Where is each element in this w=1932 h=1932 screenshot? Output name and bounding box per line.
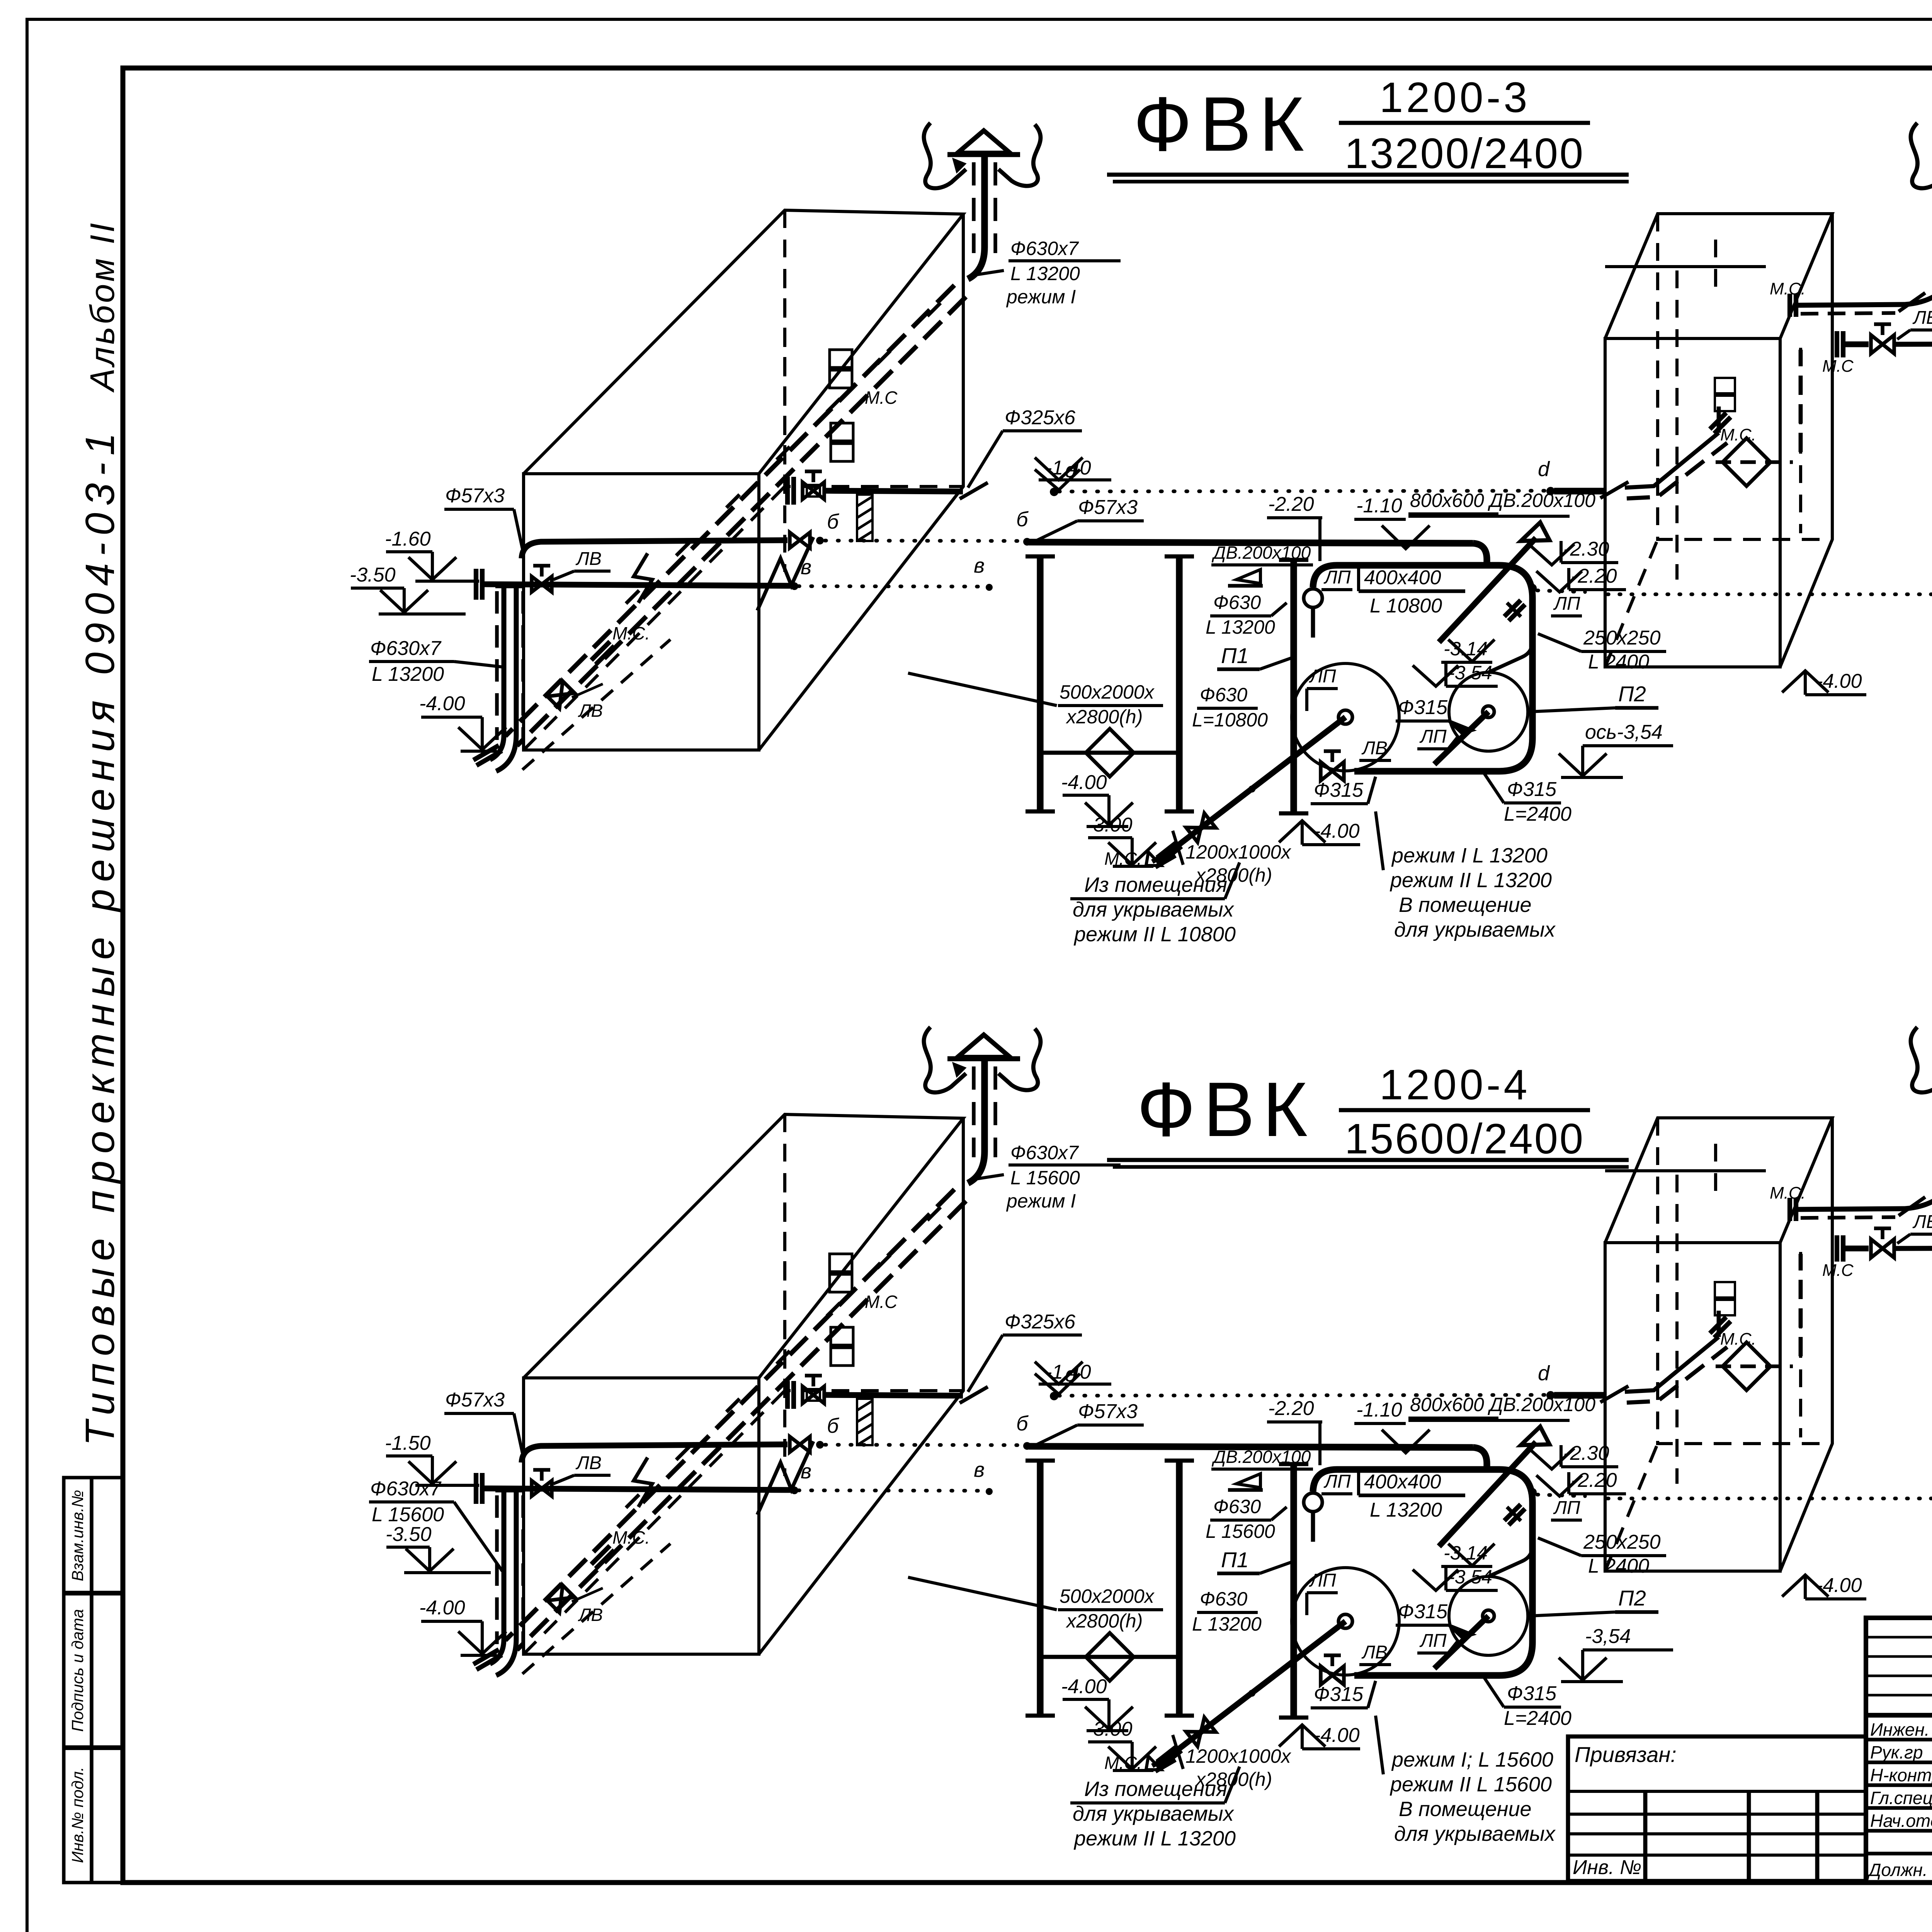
svg-text:-3.50: -3.50: [350, 564, 396, 586]
svg-text:L 13200: L 13200: [1192, 1613, 1262, 1635]
svg-text:для укрываемых: для укрываемых: [1073, 898, 1235, 921]
left shelter box front face: [524, 1378, 759, 1654]
right box top and side: [1605, 214, 1832, 338]
hatched wall sleeve: [857, 1399, 872, 1445]
thin LV dashed diagonal: [522, 1544, 670, 1674]
svg-text:Ф630: Ф630: [1200, 1588, 1247, 1610]
svg-text:режим I: режим I: [1006, 1190, 1076, 1212]
svg-text:1200х1000х: 1200х1000х: [1185, 1745, 1291, 1767]
upper scheme П1 П2 (ФВК 1200-3): [350, 123, 1932, 946]
dotted line -2.20 level: [1537, 590, 1585, 592]
svg-text:В помещение: В помещение: [1399, 1798, 1532, 1821]
elevation -1.60: [385, 528, 479, 581]
tick marks on п2: [1507, 603, 1521, 617]
svg-text:ЛП: ЛП: [1309, 666, 1336, 687]
svg-text:13200/2400: 13200/2400: [1345, 130, 1585, 177]
svg-text:ЛП: ЛП: [1419, 726, 1447, 747]
valve on bottom edge: [1321, 751, 1344, 781]
svg-text:1200х1000х: 1200х1000х: [1185, 841, 1291, 863]
svg-text:Ф630х7: Ф630х7: [1010, 238, 1079, 259]
П1 chamber wall: [1290, 560, 1297, 813]
filter diamond: [1086, 1633, 1134, 1681]
П2 outlet diagonal: [1434, 1616, 1488, 1668]
svg-text:-4.00: -4.00: [1061, 771, 1107, 794]
svg-text:М.С.: М.С.: [612, 1527, 650, 1548]
svg-text:М.С: М.С: [865, 388, 898, 408]
exhaust stack pipe: [981, 1058, 988, 1151]
svg-text:Ф630: Ф630: [1200, 684, 1247, 706]
svg-text:Ф325х6: Ф325х6: [1005, 406, 1075, 429]
svg-text:ЛВ: ЛВ: [575, 549, 602, 569]
svg-text:Ф630х7: Ф630х7: [370, 637, 442, 660]
wind flourish left: [924, 123, 966, 188]
grille rects right box: [1715, 1282, 1735, 1298]
Ф325х6 pipe from box with valve: [787, 1381, 794, 1409]
svg-text:L 10800: L 10800: [1370, 595, 1442, 617]
downpipe Ф630х7: [502, 586, 507, 735]
wall muffler grilles: [830, 350, 852, 367]
dash duct to upper flange: [1799, 350, 1803, 452]
svg-text:-2.20: -2.20: [1268, 1397, 1314, 1420]
stack umbrella cap: [957, 131, 1010, 153]
svg-text:-4.00: -4.00: [419, 692, 465, 715]
duct inside box to stack: [505, 1189, 954, 1640]
svg-text:Н-контр: Н-контр: [1870, 1765, 1932, 1785]
svg-text:для укрываемых: для укрываемых: [1073, 1802, 1235, 1825]
svg-text:М.С.: М.С.: [1104, 849, 1142, 869]
wind flourish right: [998, 1029, 1041, 1090]
pipe Ф57х3 run b: [522, 1444, 787, 1463]
right box inner top: [1605, 1169, 1766, 1172]
valve on pipe b: [790, 1437, 810, 1452]
MC tick on duct: [1710, 413, 1731, 434]
svg-text:Из помещения: Из помещения: [1084, 1777, 1227, 1801]
svg-text:Ф325х6: Ф325х6: [1005, 1311, 1075, 1333]
d reference dotted line: [1059, 491, 1546, 492]
diamond filter right box: [1723, 1342, 1770, 1390]
svg-text:-3.00: -3.00: [1087, 814, 1133, 836]
fan П1 scroll: [1292, 1568, 1399, 1675]
svg-text:режим II L 10800: режим II L 10800: [1073, 923, 1236, 946]
elevation -4.00 under filter: [1061, 1675, 1133, 1731]
right box top and side: [1605, 1118, 1832, 1243]
svg-text:Инв. №: Инв. №: [1573, 1856, 1641, 1879]
svg-text:Ф630: Ф630: [1213, 592, 1261, 613]
svg-text:ДВ.200х100: ДВ.200х100: [1211, 543, 1311, 563]
svg-text:L=10800: L=10800: [1192, 709, 1268, 731]
filter cell column walls: [1037, 556, 1043, 811]
svg-text:1200-4: 1200-4: [1379, 1061, 1531, 1109]
fan П2 scroll: [1449, 672, 1528, 751]
filter bottom connector: [1040, 751, 1179, 755]
right wind flourish left: [1911, 123, 1932, 188]
wall muffler grilles: [830, 1254, 852, 1272]
svg-text:Ф57х3: Ф57х3: [1078, 1400, 1138, 1423]
elevation -1.40 on d line: [1035, 457, 1111, 480]
svg-text:Типовые проектные решения 0904: Типовые проектные решения 0904-03-1: [77, 426, 123, 1446]
d reference dotted line: [1059, 1395, 1546, 1396]
svg-text:d: d: [1538, 1362, 1550, 1385]
svg-text:L 13200: L 13200: [1370, 1499, 1442, 1521]
svg-text:ЛП: ЛП: [1553, 1498, 1580, 1518]
П1 chamber wall: [1290, 1464, 1297, 1718]
svg-text:Гл.спец: Гл.спец: [1870, 1788, 1932, 1808]
svg-text:1200-3: 1200-3: [1379, 74, 1531, 121]
svg-text:d: d: [1065, 1363, 1077, 1386]
pipe v flange: [476, 569, 482, 600]
left box right face: [759, 214, 963, 750]
svg-text:-3.14: -3.14: [1444, 638, 1488, 660]
right shelter box front face: [1605, 1243, 1780, 1571]
svg-text:режим I L 13200: режим I L 13200: [1391, 844, 1548, 867]
wind flourish left: [924, 1027, 966, 1092]
svg-text:режим II L 13200: режим II L 13200: [1389, 869, 1552, 892]
svg-text:М.С: М.С: [865, 1292, 898, 1312]
point b dotted link: [825, 541, 1024, 541]
pipe Ф57х3 run b: [522, 540, 787, 558]
wind flourish right: [998, 124, 1041, 186]
svg-text:в: в: [974, 554, 985, 577]
Ф315 pipe with valve: [1837, 1235, 1843, 1262]
svg-text:-3.54: -3.54: [1448, 662, 1492, 684]
damper circle: [1304, 1493, 1322, 1512]
П2 enclosure outline: [1337, 565, 1532, 771]
right wind flourish left: [1911, 1027, 1932, 1092]
svg-text:Ф57х3: Ф57х3: [445, 485, 505, 507]
elevation -3.50: [350, 564, 466, 614]
svg-text:Взам.инв.№: Взам.инв.№: [68, 1490, 87, 1581]
svg-text:L 13200: L 13200: [372, 663, 444, 685]
break zigzag on duct: [634, 1458, 652, 1507]
flag symbol: [1236, 1474, 1260, 1488]
left box top face: [524, 210, 963, 474]
pipe Ф57х3 run to unit: [1029, 1446, 1473, 1447]
Ф315 pipe with valve: [1837, 331, 1843, 357]
fan П1 scroll: [1292, 663, 1399, 771]
svg-text:-1.10: -1.10: [1356, 495, 1402, 517]
svg-text:d: d: [1065, 459, 1077, 482]
П2 enclosure outline: [1337, 1469, 1532, 1675]
svg-text:М.С: М.С: [1822, 1261, 1854, 1280]
elevation -3.00: [1087, 1718, 1156, 1770]
svg-text:-4.00: -4.00: [419, 1597, 465, 1619]
svg-text:П2: П2: [1618, 682, 1646, 706]
svg-text:-4.00: -4.00: [1061, 1675, 1107, 1698]
svg-text:М.С.: М.С.: [1104, 1753, 1142, 1773]
svg-text:режим I: режим I: [1006, 286, 1076, 308]
duct d to right box: [1554, 488, 1604, 494]
svg-text:Альбом II: Альбом II: [83, 221, 121, 393]
svg-text:Ф315: Ф315: [1314, 779, 1364, 801]
svg-text:для укрываемых: для укрываемых: [1394, 1822, 1556, 1845]
svg-text:L=2400: L=2400: [1504, 803, 1571, 825]
svg-text:800х600 ДВ.200х100: 800х600 ДВ.200х100: [1410, 490, 1595, 511]
hatched wall sleeve: [857, 495, 872, 541]
svg-text:-3.00: -3.00: [1087, 1718, 1133, 1740]
title block: [1866, 1618, 1932, 1883]
svg-text:-1.10: -1.10: [1356, 1399, 1402, 1421]
svg-text:Ф315: Ф315: [1398, 1600, 1448, 1623]
250х250 duct diagonal: [1439, 538, 1536, 642]
svg-text:в: в: [801, 1460, 811, 1483]
svg-text:-1.50: -1.50: [385, 1432, 431, 1454]
svg-text:L 15600: L 15600: [1010, 1167, 1080, 1189]
svg-text:режим II L 15600: режим II L 15600: [1389, 1773, 1552, 1796]
svg-text:б: б: [827, 1414, 839, 1437]
pipe v: [484, 1488, 791, 1490]
duct d to right box: [1554, 1392, 1604, 1398]
svg-text:15600/2400: 15600/2400: [1345, 1115, 1585, 1163]
svg-text:ЛВ: ЛВ: [1912, 1212, 1932, 1232]
title ФВК 1200-3 / 13200 2400: [1107, 74, 1629, 182]
privyazan table: [1568, 1736, 1866, 1881]
250х250 duct diagonal: [1439, 1442, 1536, 1546]
flag symbol: [1236, 570, 1260, 583]
svg-text:-3.54: -3.54: [1448, 1566, 1492, 1588]
svg-text:х2800(h): х2800(h): [1066, 706, 1143, 728]
svg-text:Ф630: Ф630: [1213, 1496, 1261, 1517]
elevation -4.00 left: [419, 692, 506, 751]
svg-text:в: в: [801, 556, 811, 579]
dotted г reference line: [1607, 1497, 1932, 1500]
svg-text:Должн.: Должн.: [1867, 1860, 1928, 1880]
svg-text:Ф315: Ф315: [1398, 696, 1448, 719]
duct inside box to stack: [505, 285, 954, 736]
svg-text:Ф315: Ф315: [1507, 1682, 1557, 1705]
svg-text:-3.50: -3.50: [386, 1523, 432, 1546]
svg-text:Ф315: Ф315: [1314, 1683, 1364, 1706]
svg-text:в: в: [974, 1458, 985, 1481]
anchor plate: [807, 1389, 820, 1401]
svg-text:Рук.гр: Рук.гр: [1870, 1742, 1923, 1762]
valve on pipe b: [790, 532, 810, 548]
svg-text:для укрываемых: для укрываемых: [1394, 918, 1556, 941]
damper circle: [1304, 589, 1322, 607]
filter cell column walls: [1037, 1461, 1043, 1716]
left box top face: [524, 1114, 963, 1378]
elevation -4.00 under filter: [1061, 771, 1133, 827]
right box hidden edges: [1658, 214, 1832, 539]
svg-text:L 13200: L 13200: [1206, 616, 1275, 638]
svg-text:режим II L 13200: режим II L 13200: [1073, 1827, 1236, 1850]
svg-text:ЛВ: ЛВ: [578, 1605, 603, 1625]
svg-text:П2: П2: [1618, 1586, 1646, 1610]
elevation -3.00: [1087, 814, 1156, 866]
svg-text:ЛВ: ЛВ: [575, 1453, 602, 1473]
svg-text:Ф57х3: Ф57х3: [445, 1389, 505, 1411]
svg-text:ЛВ: ЛВ: [578, 701, 603, 721]
svg-text:800х600 ДВ.200х100: 800х600 ДВ.200х100: [1410, 1394, 1595, 1415]
valve on bottom edge: [1321, 1655, 1344, 1685]
svg-text:М.С: М.С: [1822, 357, 1854, 376]
svg-text:ЛВ: ЛВ: [1361, 1642, 1388, 1663]
fan П2 scroll: [1449, 1577, 1528, 1655]
svg-text:500х2000х: 500х2000х: [1060, 681, 1155, 703]
exhaust stack pipe: [981, 154, 988, 247]
down arrow to п2: [1448, 1544, 1495, 1566]
svg-text:-3.14: -3.14: [1444, 1542, 1488, 1564]
valve on interior duct: [548, 1585, 575, 1613]
svg-text:d: d: [1538, 457, 1550, 481]
MC tick on duct: [1710, 1317, 1731, 1338]
svg-text:П1: П1: [1221, 643, 1249, 668]
right box hidden edges: [1658, 1118, 1832, 1444]
П1 inlet diagonal duct: [1158, 717, 1345, 861]
svg-text:ФВК: ФВК: [1137, 1066, 1315, 1153]
valve on interior duct: [548, 681, 575, 709]
svg-text:ЛП: ЛП: [1419, 1631, 1447, 1651]
svg-text:Ф315: Ф315: [1507, 778, 1557, 801]
elevation -1.40 on d line: [1035, 1361, 1111, 1384]
svg-text:ЛП: ЛП: [1323, 1471, 1351, 1492]
pipe v flange: [476, 1473, 482, 1504]
double arrow V mark: [757, 537, 813, 611]
tick marks on п2: [1507, 1507, 1521, 1521]
duct rising in right box: [1717, 1311, 1721, 1337]
Ф325х6 pipe from box with valve: [787, 477, 794, 505]
left shelter box front face: [524, 474, 759, 750]
pipe v: [484, 584, 791, 586]
svg-text:Привязан:: Привязан:: [1575, 1742, 1677, 1767]
grille rects right box: [1715, 378, 1735, 393]
П1 inlet diagonal duct: [1158, 1621, 1345, 1765]
Ф325 pipe to right stack: [1798, 304, 1905, 305]
point b dotted link: [825, 1445, 1024, 1445]
left attribute table: [64, 1478, 123, 1883]
svg-text:L 2400: L 2400: [1588, 651, 1649, 673]
svg-text:400х400: 400х400: [1364, 566, 1441, 589]
elevation -3.50: [386, 1523, 491, 1573]
svg-text:ФВК: ФВК: [1133, 81, 1312, 167]
break zigzag on duct: [634, 553, 652, 603]
left box hidden edges: [785, 210, 963, 486]
title ФВК 1200-4 / 15600 2400: [1107, 1061, 1629, 1167]
svg-text:б: б: [1016, 508, 1029, 531]
vertical line with dot: [1529, 591, 1535, 674]
svg-text:-1.60: -1.60: [385, 528, 431, 550]
svg-text:L 15600: L 15600: [372, 1503, 444, 1526]
svg-text:б: б: [1016, 1412, 1029, 1435]
svg-text:L=2400: L=2400: [1504, 1707, 1571, 1730]
anchor plate: [807, 485, 820, 497]
svg-text:В помещение: В помещение: [1399, 893, 1532, 917]
svg-text:500х2000х: 500х2000х: [1060, 1585, 1155, 1607]
duct rising in right box: [1717, 406, 1721, 433]
thin LV dashed diagonal: [522, 639, 670, 770]
diamond filter right box: [1723, 438, 1770, 486]
svg-text:ЛВ: ЛВ: [1912, 308, 1932, 328]
elevation -4.00 left: [419, 1597, 506, 1655]
dash duct to upper flange: [1799, 1254, 1803, 1356]
right box inner top: [1605, 265, 1766, 268]
elevation -1.60: [385, 1432, 479, 1485]
svg-text:ЛВ: ЛВ: [1361, 738, 1388, 759]
svg-text:М.С.: М.С.: [612, 623, 650, 643]
svg-text:режим I; L 15600: режим I; L 15600: [1391, 1748, 1553, 1771]
svg-text:Инжен.: Инжен.: [1870, 1719, 1930, 1740]
left box right face: [759, 1118, 963, 1654]
svg-text:-3,54: -3,54: [1585, 1625, 1631, 1648]
dotted line -2.20 level: [1537, 1495, 1585, 1496]
П2 outlet diagonal: [1434, 712, 1488, 764]
pipe Ф57х3 run to unit: [1029, 542, 1473, 543]
svg-text:400х400: 400х400: [1364, 1471, 1441, 1493]
svg-text:Нач.отд: Нач.отд: [1870, 1811, 1932, 1831]
svg-text:Из помещения: Из помещения: [1084, 873, 1227, 896]
vertical line with dot: [1529, 1495, 1535, 1578]
svg-text:L 13200: L 13200: [1010, 263, 1080, 284]
lower scheme П1 П2 (ФВК 1200-4): [369, 1027, 1932, 1850]
svg-text:Ф630х7: Ф630х7: [1010, 1142, 1079, 1163]
dotted г reference line: [1607, 592, 1932, 596]
double arrow V mark: [757, 1441, 813, 1515]
pennant flag: [1521, 522, 1549, 541]
svg-text:ось-3,54: ось-3,54: [1585, 721, 1663, 743]
pennant flag: [1521, 1427, 1549, 1445]
svg-text:ДВ.200х100: ДВ.200х100: [1211, 1447, 1311, 1467]
stack umbrella cap: [957, 1035, 1010, 1057]
filter bottom connector: [1040, 1655, 1179, 1659]
svg-text:ЛП: ЛП: [1309, 1570, 1336, 1591]
svg-text:б: б: [827, 510, 839, 533]
left box hidden edges: [785, 1114, 963, 1391]
svg-text:-2.20: -2.20: [1268, 493, 1314, 515]
svg-text:Ф57х3: Ф57х3: [1078, 496, 1138, 519]
down arrow to п2: [1448, 639, 1495, 662]
svg-text:ЛП: ЛП: [1323, 567, 1351, 588]
right shelter box front face: [1605, 338, 1780, 667]
svg-text:Подпись и дата: Подпись и дата: [68, 1609, 87, 1732]
svg-text:L 15600: L 15600: [1206, 1520, 1275, 1542]
svg-text:П1: П1: [1221, 1548, 1249, 1572]
filter diamond: [1086, 729, 1134, 777]
svg-text:L 2400: L 2400: [1588, 1555, 1649, 1577]
svg-text:х2800(h): х2800(h): [1066, 1610, 1143, 1632]
Ф325 pipe to right stack: [1798, 1209, 1905, 1209]
svg-text:Инв.№ подл.: Инв.№ подл.: [68, 1767, 87, 1863]
downpipe Ф630х7: [502, 1490, 507, 1639]
svg-text:ЛП: ЛП: [1553, 594, 1580, 614]
